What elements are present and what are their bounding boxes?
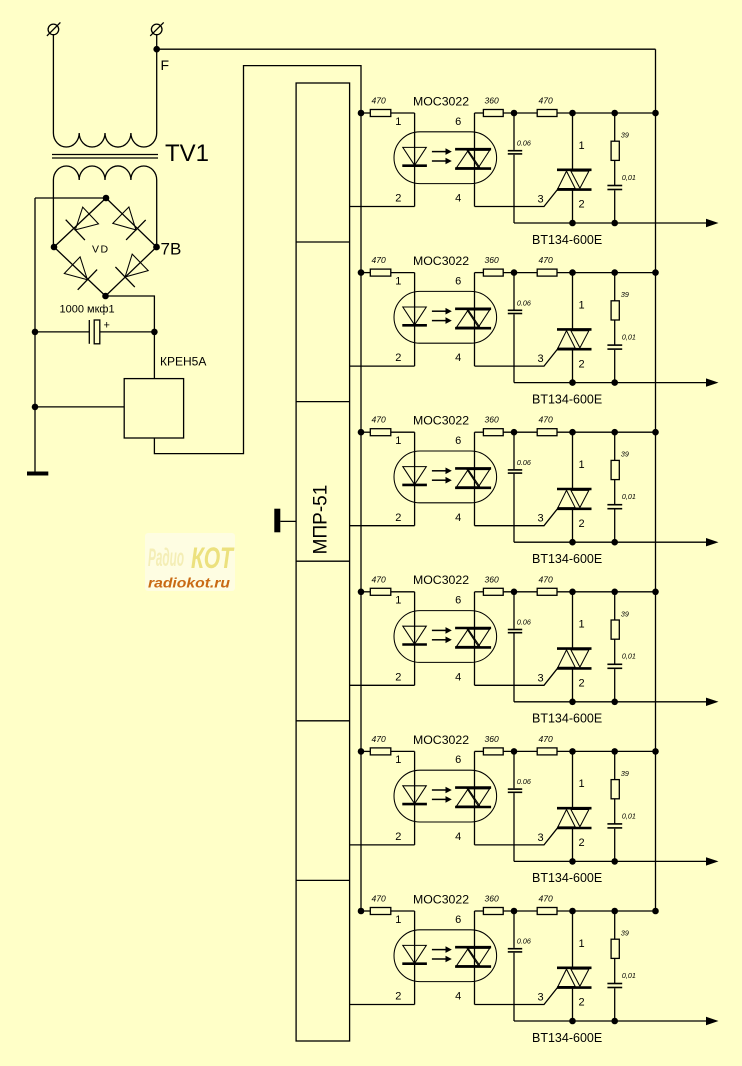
node: triac MT2 tap channel 2 [569, 269, 576, 276]
wire: secondary right to bridge AC node 7B [156, 180, 158, 247]
svg-text:0.06: 0.06 [517, 298, 531, 307]
node: bridge top (minus) [103, 195, 110, 202]
svg-text:4: 4 [455, 512, 461, 524]
node: regulator ground tap on 0V rail [32, 404, 39, 411]
node: +5V rail tap channel 6 [358, 908, 365, 915]
capacitor C3a 0.06 [508, 432, 522, 542]
svg-text:0,01: 0,01 [622, 173, 636, 182]
node: triac MT2 tap channel 5 [569, 748, 576, 755]
triac VS5 BT134-600E [557, 751, 592, 861]
node: bridge bottom (plus) [102, 293, 109, 300]
svg-text:КРЕН5А: КРЕН5А [160, 355, 206, 369]
svg-text:470: 470 [372, 415, 386, 425]
transformer TV1 core [52, 155, 158, 159]
LED of opto U1 [402, 147, 427, 165]
svg-text:470: 470 [539, 734, 553, 744]
svg-text:360: 360 [485, 415, 499, 425]
node: +5V rail tap channel 1 [358, 110, 365, 117]
node: C1 left on 0V rail [32, 329, 39, 336]
resistor R5b 360 [475, 748, 538, 755]
node: snubber on output rail channel 3 [611, 539, 618, 546]
resistor R6d 39 [611, 911, 619, 984]
svg-text:2: 2 [578, 997, 584, 1009]
capacitor C3b 0.01 [607, 505, 622, 543]
resistor R2c 470 [537, 269, 655, 276]
svg-text:MOC3022: MOC3022 [413, 733, 469, 747]
resistor R4c 470 [537, 588, 655, 595]
capacitor C1a 0.06 [508, 113, 522, 223]
opto-triac of U4 [455, 628, 491, 647]
svg-text:2: 2 [578, 518, 584, 530]
opto-triac of U2 [455, 309, 491, 328]
wire: output rail channel 2 [514, 382, 710, 384]
optocoupler U2 package [394, 291, 497, 343]
light arrow b of U2 [432, 317, 452, 324]
wire: opto U5 pin 1 lead [414, 751, 416, 845]
wire: opto U4 pin 1 lead [414, 592, 416, 686]
svg-text:0.06: 0.06 [517, 618, 531, 627]
svg-text:3: 3 [538, 513, 544, 525]
svg-text:2: 2 [395, 193, 401, 205]
svg-text:1: 1 [395, 914, 401, 926]
resistor R4a 470 [361, 588, 415, 595]
svg-text:470: 470 [372, 96, 386, 106]
wire: opto U3 pin 2 to МПР-51 output [350, 525, 415, 527]
light arrow a of U6 [432, 946, 452, 953]
node: mains line tap channel 4 [652, 589, 659, 596]
wire: bridge minus to left 0V rail [35, 197, 106, 199]
node: mains line tap channel 3 [652, 429, 659, 436]
triac VS6 BT134-600E [557, 911, 592, 1021]
svg-text:МПР-51: МПР-51 [310, 485, 331, 555]
svg-text:MOC3022: MOC3022 [413, 573, 469, 587]
LED of opto U5 [402, 786, 427, 804]
transformer TV1 primary winding [53, 133, 156, 147]
node: triac MT2 tap channel 3 [569, 429, 576, 436]
svg-text:0.06: 0.06 [517, 937, 531, 946]
wire: opto U6 pin 2 to МПР-51 output [350, 1004, 415, 1006]
svg-text:КОТ: КОТ [191, 542, 235, 575]
wire: mains line from F to right edge [157, 48, 656, 50]
node: snubber cap tap channel 1 [511, 110, 518, 117]
wire: output rail channel 3 [514, 541, 710, 543]
node: triac MT1 on output rail channel 6 [569, 1018, 576, 1025]
wire: opto U6 pin 6 lead [474, 911, 476, 1005]
node: triac MT2 tap channel 6 [569, 908, 576, 915]
svg-text:MOC3022: MOC3022 [413, 254, 469, 268]
resistor R5d 39 [611, 751, 619, 824]
optocoupler U6 package [394, 930, 497, 982]
node: snubber RC tap channel 3 [611, 429, 618, 436]
wire: opto U4 pin 6 lead [474, 592, 476, 686]
triac VS1 BT134-600E [557, 113, 592, 223]
LED of opto U2 [402, 307, 427, 325]
wire: 0V rail to regulator ground pin [35, 406, 124, 408]
resistor R2a 470 [361, 269, 415, 276]
svg-text:1: 1 [395, 435, 401, 447]
diode VD4 (bottom-right) of bridge VD [115, 254, 148, 287]
node: snubber RC tap channel 2 [611, 269, 618, 276]
wire: left 0V rail vertical [34, 198, 36, 473]
svg-text:3: 3 [538, 353, 544, 365]
light arrow a of U2 [432, 308, 452, 315]
node: snubber RC tap channel 6 [611, 908, 618, 915]
resistor R1a 470 [361, 110, 415, 117]
svg-text:0,01: 0,01 [622, 971, 636, 980]
triac VS4 BT134-600E [557, 592, 592, 702]
svg-text:2: 2 [395, 352, 401, 364]
svg-text:360: 360 [485, 255, 499, 265]
svg-text:4: 4 [455, 352, 461, 364]
resistor R4d 39 [611, 592, 619, 665]
svg-text:1: 1 [578, 778, 584, 790]
wire: opto U2 pin 1 lead [414, 273, 416, 367]
node: snubber on output rail channel 5 [611, 858, 618, 865]
wire: output rail channel 4 [514, 701, 710, 703]
wire: regulator output to +5V rail [154, 66, 361, 911]
svg-text:6: 6 [455, 116, 461, 128]
svg-text:2: 2 [395, 671, 401, 683]
wire: opto U6 pin 4 gate lead [475, 987, 559, 1005]
svg-text:MOC3022: MOC3022 [413, 414, 469, 428]
svg-text:BT134-600E: BT134-600E [532, 1031, 602, 1045]
svg-text:2: 2 [395, 991, 401, 1003]
wire: F down to primary winding [156, 49, 158, 133]
svg-text:1: 1 [395, 595, 401, 607]
resistor R2d 39 [611, 273, 619, 346]
capacitor C5b 0.01 [607, 824, 622, 862]
svg-text:2: 2 [578, 837, 584, 849]
light arrow a of U1 [432, 148, 452, 155]
svg-text:39: 39 [621, 609, 629, 618]
resistor R3a 470 [361, 429, 415, 436]
wire: opto U1 pin 6 lead [474, 113, 476, 207]
controller section divider 4 [296, 720, 350, 722]
controller section divider 1 [296, 241, 350, 243]
controller section divider 3 [296, 560, 350, 562]
node: bridge left AC [51, 244, 58, 251]
svg-text:1: 1 [578, 459, 584, 471]
capacitor C6b 0.01 [607, 984, 622, 1022]
svg-text:6: 6 [455, 595, 461, 607]
svg-text:4: 4 [455, 831, 461, 843]
svg-text:360: 360 [485, 574, 499, 584]
node: C1 right on plus rail [151, 329, 158, 336]
wire: opto U1 pin 2 to МПР-51 output [350, 206, 415, 208]
node: snubber on output rail channel 4 [611, 699, 618, 706]
svg-text:6: 6 [455, 275, 461, 287]
wire: bridge plus output [106, 296, 155, 332]
svg-text:Радио: Радио [148, 544, 184, 572]
wire: opto U4 pin 4 gate lead [475, 668, 559, 686]
svg-text:1: 1 [395, 275, 401, 287]
svg-text:1: 1 [578, 140, 584, 152]
node: +5V rail tap channel 2 [358, 269, 365, 276]
svg-text:6: 6 [455, 914, 461, 926]
svg-text:3: 3 [538, 194, 544, 206]
node: mains line tap channel 2 [652, 269, 659, 276]
svg-text:360: 360 [485, 96, 499, 106]
regulator U7 КРЕН5А [124, 379, 183, 438]
capacitor C2b 0.01 [607, 345, 622, 383]
output arrow channel 6 [706, 1017, 719, 1025]
terminal X2 (AC input right, phase F) [150, 22, 164, 36]
capacitor C2a 0.06 [508, 273, 522, 383]
wire: opto U2 pin 4 gate lead [475, 349, 559, 367]
svg-text:360: 360 [485, 734, 499, 744]
opto-triac of U1 [455, 149, 491, 168]
wire: opto U3 pin 4 gate lead [475, 508, 559, 526]
svg-text:BT134-600E: BT134-600E [532, 712, 602, 726]
svg-text:0.06: 0.06 [517, 139, 531, 148]
wire: bridge edge top-left [54, 198, 106, 247]
resistor R5a 470 [361, 748, 415, 755]
svg-text:4: 4 [455, 193, 461, 205]
svg-text:2: 2 [395, 512, 401, 524]
node: +5V rail tap channel 3 [358, 429, 365, 436]
wire: bridge edge bottom-left [54, 247, 106, 296]
svg-text:0,01: 0,01 [622, 652, 636, 661]
svg-text:1: 1 [578, 619, 584, 631]
light arrow b of U4 [432, 637, 452, 644]
svg-text:1: 1 [578, 938, 584, 950]
controller section divider 5 [296, 879, 350, 881]
svg-text:7B: 7B [161, 240, 182, 259]
node: snubber cap tap channel 5 [511, 748, 518, 755]
node: snubber cap tap channel 3 [511, 429, 518, 436]
opto-triac of U3 [455, 468, 491, 487]
transformer TV1 secondary winding [53, 166, 156, 180]
common terminal of МПР-51 [274, 509, 296, 533]
light arrow a of U3 [432, 468, 452, 475]
svg-text:1000 мкф1: 1000 мкф1 [60, 304, 115, 316]
optocoupler U3 package [394, 451, 497, 503]
resistor R1d 39 [611, 113, 619, 186]
optocoupler U1 package [394, 132, 497, 184]
node: snubber cap tap channel 4 [511, 589, 518, 596]
wire: opto U5 pin 4 gate lead [475, 827, 559, 845]
svg-text:MOC3022: MOC3022 [413, 94, 469, 108]
svg-text:39: 39 [621, 131, 629, 140]
svg-text:0.06: 0.06 [517, 458, 531, 467]
resistor R3c 470 [537, 429, 655, 436]
svg-text:470: 470 [372, 255, 386, 265]
node: triac MT1 on output rail channel 4 [569, 699, 576, 706]
triac VS2 BT134-600E [557, 273, 592, 383]
resistor R1b 360 [475, 110, 538, 117]
svg-text:TV1: TV1 [165, 140, 209, 167]
light arrow a of U4 [432, 627, 452, 634]
capacitor C5a 0.06 [508, 751, 522, 861]
capacitor C1 1000uF [35, 320, 154, 344]
svg-text:470: 470 [539, 894, 553, 904]
node: triac MT2 tap channel 1 [569, 110, 576, 117]
svg-text:1: 1 [395, 116, 401, 128]
svg-text:F: F [161, 57, 170, 73]
svg-text:0,01: 0,01 [622, 333, 636, 342]
node: triac MT1 on output rail channel 1 [569, 220, 576, 227]
controller U8 МПР-51 box [296, 83, 350, 1041]
LED of opto U3 [402, 467, 427, 485]
svg-text:0,01: 0,01 [622, 811, 636, 820]
svg-text:470: 470 [539, 574, 553, 584]
svg-text:0,01: 0,01 [622, 492, 636, 501]
node: mains line tap channel 6 [652, 908, 659, 915]
svg-text:3: 3 [538, 832, 544, 844]
node: bridge right AC (7B) [153, 244, 160, 251]
light arrow a of U5 [432, 787, 452, 794]
svg-text:radiokot.ru: radiokot.ru [148, 576, 231, 591]
light arrow b of U1 [432, 158, 452, 165]
node: snubber cap tap channel 6 [511, 908, 518, 915]
resistor R3d 39 [611, 432, 619, 505]
wire: opto U1 pin 4 gate lead [475, 189, 559, 207]
resistor R1c 470 [537, 110, 655, 117]
svg-text:VD: VD [92, 244, 110, 256]
svg-text:470: 470 [539, 96, 553, 106]
svg-text:BT134-600E: BT134-600E [532, 233, 602, 247]
svg-text:2: 2 [578, 678, 584, 690]
svg-text:470: 470 [539, 415, 553, 425]
svg-text:1: 1 [395, 754, 401, 766]
opto-triac of U6 [455, 947, 491, 966]
diode VD3 (bottom-left) of bridge VD [64, 257, 97, 290]
svg-text:2: 2 [395, 831, 401, 843]
node: triac MT2 tap channel 4 [569, 589, 576, 596]
diode VD1 (top-left) of bridge VD [66, 207, 99, 240]
svg-text:470: 470 [372, 734, 386, 744]
LED of opto U4 [402, 626, 427, 644]
capacitor C4b 0.01 [607, 664, 622, 702]
svg-text:360: 360 [485, 894, 499, 904]
wire: opto U1 pin 1 lead [414, 113, 416, 207]
node: +5V rail tap channel 4 [358, 589, 365, 596]
wire: opto U2 pin 6 lead [474, 273, 476, 367]
node F junction [153, 46, 160, 53]
wire: opto U6 pin 1 lead [414, 911, 416, 1005]
node: triac MT1 on output rail channel 2 [569, 379, 576, 386]
resistor R4b 360 [475, 588, 538, 595]
resistor R6b 360 [475, 908, 538, 915]
wire: opto U5 pin 2 to МПР-51 output [350, 844, 415, 846]
resistor R3b 360 [475, 429, 538, 436]
wire: opto U3 pin 1 lead [414, 432, 416, 526]
resistor R6a 470 [361, 908, 415, 915]
controller section divider 2 [296, 401, 350, 403]
svg-text:0.06: 0.06 [517, 777, 531, 786]
node: snubber on output rail channel 2 [611, 379, 618, 386]
light arrow b of U5 [432, 796, 452, 803]
svg-text:3: 3 [538, 992, 544, 1004]
svg-text:4: 4 [455, 671, 461, 683]
light arrow b of U3 [432, 477, 452, 484]
output arrow channel 3 [706, 538, 719, 546]
svg-text:MOC3022: MOC3022 [413, 892, 469, 906]
wire: output rail channel 6 [514, 1020, 710, 1022]
svg-text:BT134-600E: BT134-600E [532, 871, 602, 885]
svg-text:470: 470 [539, 255, 553, 265]
wire: secondary left to bridge AC node [52, 180, 54, 247]
opto-triac of U5 [455, 788, 491, 807]
wire: mains vertical line down right side [655, 49, 657, 911]
capacitor C6a 0.06 [508, 911, 522, 1021]
svg-text:2: 2 [578, 358, 584, 370]
node: triac MT1 on output rail channel 5 [569, 858, 576, 865]
svg-text:+: + [104, 320, 110, 332]
svg-text:470: 470 [372, 574, 386, 584]
optocoupler U5 package [394, 770, 497, 822]
node: snubber cap tap channel 2 [511, 269, 518, 276]
node: +5V rail tap channel 5 [358, 748, 365, 755]
wire: bridge edge top-right [106, 198, 157, 247]
watermark Радио КОТ [145, 533, 235, 591]
svg-text:3: 3 [538, 672, 544, 684]
svg-text:6: 6 [455, 435, 461, 447]
node: snubber RC tap channel 5 [611, 748, 618, 755]
wire: opto U5 pin 6 lead [474, 751, 476, 845]
diode VD2 (top-right) of bridge VD [113, 207, 146, 240]
output arrow channel 5 [706, 857, 719, 865]
node: snubber RC tap channel 4 [611, 589, 618, 596]
LED of opto U6 [402, 945, 427, 963]
wire: plus rail to regulator input [153, 332, 155, 379]
resistor R5c 470 [537, 748, 655, 755]
wire: output rail channel 1 [514, 222, 710, 224]
node: mains line tap channel 5 [652, 748, 659, 755]
output arrow channel 1 [706, 219, 719, 227]
output arrow channel 2 [706, 378, 719, 386]
output arrow channel 4 [706, 698, 719, 706]
terminal X1 (AC input left) [47, 22, 61, 36]
capacitor C4a 0.06 [508, 592, 522, 702]
wire: opto U3 pin 6 lead [474, 432, 476, 526]
svg-text:39: 39 [621, 450, 629, 459]
optocoupler U4 package [394, 611, 497, 663]
svg-text:39: 39 [621, 290, 629, 299]
svg-text:39: 39 [621, 769, 629, 778]
svg-text:1: 1 [578, 299, 584, 311]
node: mains line tap channel 1 [652, 110, 659, 117]
svg-text:6: 6 [455, 754, 461, 766]
light arrow b of U6 [432, 956, 452, 963]
svg-text:2: 2 [578, 199, 584, 211]
svg-text:470: 470 [372, 894, 386, 904]
svg-text:BT134-600E: BT134-600E [532, 552, 602, 566]
resistor R2b 360 [475, 269, 538, 276]
svg-text:BT134-600E: BT134-600E [532, 392, 602, 406]
wire: output rail channel 5 [514, 860, 710, 862]
svg-text:4: 4 [455, 991, 461, 1003]
wire: X1 to primary winding [52, 35, 54, 133]
node: snubber on output rail channel 6 [611, 1018, 618, 1025]
wire: X2 down to node F [156, 35, 158, 50]
triac VS3 BT134-600E [557, 432, 592, 542]
wire: bridge edge bottom-right [106, 247, 157, 296]
node: triac MT1 on output rail channel 3 [569, 539, 576, 546]
node: snubber RC tap channel 1 [611, 110, 618, 117]
wire: opto U2 pin 2 to МПР-51 output [350, 365, 415, 367]
node: snubber on output rail channel 1 [611, 220, 618, 227]
resistor R6c 470 [537, 908, 655, 915]
ground [27, 472, 48, 476]
capacitor C1b 0.01 [607, 186, 622, 224]
svg-text:39: 39 [621, 929, 629, 938]
wire: opto U4 pin 2 to МПР-51 output [350, 684, 415, 686]
